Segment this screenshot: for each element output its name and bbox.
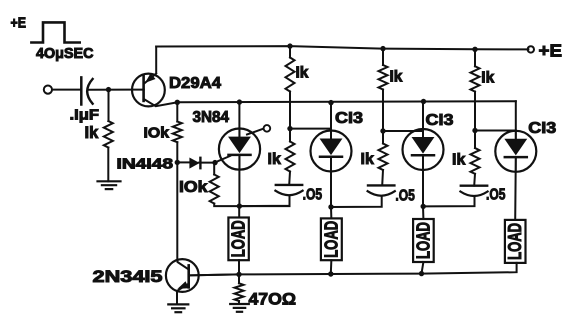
svg-text:+E: +E: [539, 41, 563, 61]
svg-text:LOAD: LOAD: [413, 222, 433, 259]
svg-text:3N84: 3N84: [193, 109, 230, 126]
svg-text:CI3: CI3: [335, 110, 363, 127]
svg-text:Ik: Ik: [296, 64, 309, 81]
svg-text:.O5: .O5: [303, 187, 323, 204]
svg-text:4OμSEC: 4OμSEC: [36, 45, 94, 62]
svg-text:IOk: IOk: [144, 125, 170, 142]
svg-text:47OΩ: 47OΩ: [249, 291, 297, 309]
svg-text:.O5: .O5: [486, 187, 506, 204]
svg-text:LOAD: LOAD: [229, 220, 249, 257]
svg-text:.IμF: .IμF: [70, 107, 100, 124]
svg-text:D29A4: D29A4: [169, 75, 221, 92]
svg-text:Ik: Ik: [268, 151, 281, 168]
svg-text:IN4I48: IN4I48: [117, 156, 174, 173]
svg-text:CI3: CI3: [528, 120, 556, 137]
svg-text:CI3: CI3: [426, 112, 454, 129]
svg-text:2N34I5: 2N34I5: [93, 268, 163, 286]
svg-text:Ik: Ik: [85, 124, 100, 142]
svg-text:+E: +E: [11, 16, 27, 32]
svg-text:LOAD: LOAD: [505, 223, 525, 260]
svg-text:LOAD: LOAD: [321, 221, 341, 258]
svg-text:.O5: .O5: [395, 187, 415, 204]
svg-text:IOk: IOk: [179, 179, 208, 196]
svg-text:Ik: Ik: [390, 69, 403, 86]
svg-text:Ik: Ik: [452, 152, 465, 169]
svg-text:Ik: Ik: [481, 70, 494, 87]
svg-text:Ik: Ik: [361, 151, 374, 168]
